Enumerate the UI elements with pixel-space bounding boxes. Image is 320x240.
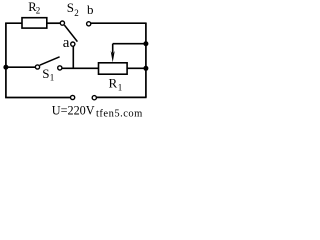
- wire: S1 to R1 left terminal: [62, 67, 99, 69]
- supply left terminal: [71, 95, 75, 99]
- svg-text:2: 2: [36, 5, 41, 15]
- wire: left rail: [5, 23, 7, 97]
- junction dot R1/right rail: [143, 66, 148, 71]
- wire: b to top-right corner: [91, 22, 147, 24]
- rheostat R1 wiper arrow: [112, 44, 114, 53]
- wire: node a down to middle wire: [72, 46, 74, 69]
- wire: supply right terminal to bottom-right corner: [97, 96, 147, 98]
- wire: left rail to S1 left terminal: [6, 66, 35, 68]
- svg-text:b: b: [87, 2, 94, 17]
- svg-text:S: S: [42, 66, 49, 81]
- svg-text:a: a: [63, 35, 70, 51]
- resistor R2: [22, 18, 47, 28]
- svg-text:R: R: [109, 75, 118, 90]
- rheostat R1 box: [99, 63, 128, 74]
- wire: bottom-left to supply left terminal: [5, 97, 70, 99]
- svg-text:1: 1: [50, 73, 55, 83]
- wire: right rail: [145, 23, 147, 97]
- svg-text:2: 2: [74, 8, 79, 18]
- junction dot on left rail at S1: [3, 65, 8, 70]
- supply right terminal: [92, 96, 96, 100]
- svg-text:1: 1: [118, 83, 123, 93]
- switch S2 blade (open, toward node a): [64, 25, 77, 41]
- switch S1 right terminal: [58, 66, 62, 70]
- node a terminal: [71, 42, 75, 46]
- switch S1 left terminal: [35, 65, 39, 69]
- switch S1 blade (open): [40, 57, 60, 65]
- switch S2 left terminal: [60, 21, 64, 25]
- node b terminal: [87, 22, 91, 26]
- svg-text:tfen5.com: tfen5.com: [96, 109, 143, 120]
- wire: R2 to S2 left terminal: [47, 22, 60, 24]
- svg-text:U=220V: U=220V: [52, 103, 95, 117]
- wire: top-left from rail to R2: [5, 22, 22, 24]
- wire: R1 right terminal to right rail: [127, 67, 146, 69]
- wire: wiper to right rail: [113, 43, 146, 45]
- svg-text:S: S: [67, 0, 74, 15]
- junction dot wiper/right rail: [143, 41, 148, 46]
